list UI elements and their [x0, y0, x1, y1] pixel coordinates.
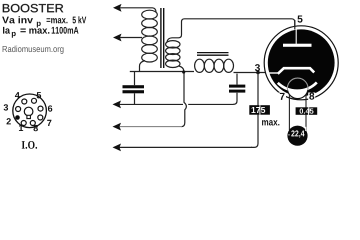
- label pin 3: [255, 64, 260, 71]
- value circle 22,4: [287, 126, 307, 146]
- socket label 1: [19, 125, 23, 131]
- socket key: [24, 107, 33, 118]
- wire secondary bottom lead: [179, 66, 184, 72]
- socket label 6: [48, 105, 52, 111]
- inductor L1: [195, 59, 234, 72]
- label pin 8 with halo: [308, 92, 315, 101]
- label pin 5: [297, 15, 302, 22]
- socket pin 8: [30, 121, 35, 126]
- rating line Va inv p = max. 5 kV: [2, 16, 86, 27]
- arrow output C with line: [113, 144, 253, 152]
- socket label 7: [47, 120, 51, 126]
- socket label 3: [4, 104, 8, 110]
- wire primary bottom lead: [140, 61, 146, 72]
- node junction secondary bottom: [182, 70, 185, 73]
- tube grid: [269, 68, 315, 74]
- value box 0.45: [296, 107, 318, 115]
- capacitor C1 bottom lead: [134, 93, 136, 104]
- transformer T1 core: [161, 8, 164, 68]
- capacitor C1: [123, 85, 145, 93]
- watermark Radiomuseum.org: [3, 46, 64, 54]
- tube V1 envelope: [264, 26, 338, 100]
- socket pin 6: [38, 106, 43, 111]
- socket label 5: [37, 92, 41, 98]
- socket pin 3: [16, 107, 21, 112]
- wire heater lead pin 8: [305, 94, 307, 131]
- socket outline: [13, 94, 47, 128]
- socket pin 4: [22, 99, 27, 104]
- capacitor C2 top lead: [236, 74, 238, 85]
- socket label I.O.: [22, 141, 37, 149]
- wire bottom bus: [130, 71, 194, 73]
- node junction on pin3 wire: [256, 71, 260, 75]
- label pin 7 with halo: [279, 93, 287, 102]
- wire hop where secondary return crosses line A: [182, 72, 189, 127]
- transformer T1 secondary winding: [166, 41, 180, 68]
- capacitor C2: [229, 85, 245, 93]
- socket label 4: [15, 92, 20, 98]
- tube V1 black body: [268, 29, 335, 96]
- socket label 8: [33, 125, 37, 131]
- wire inductor to tube pin 3: [234, 72, 270, 74]
- arrow top input 1: [113, 4, 153, 12]
- capacitor C1 top lead: [134, 72, 136, 86]
- socket pin 2 (filled): [15, 115, 20, 120]
- wire secondary top to tube pin 5: [167, 19, 295, 42]
- tube pin 5 lead: [295, 20, 296, 44]
- arrow top input 2 (primary tap): [113, 34, 142, 42]
- tube anode plate: [283, 44, 312, 47]
- socket pin 5: [32, 98, 37, 103]
- tube cathode arc: [278, 82, 317, 90]
- capacitor C2 bottom lead: [233, 93, 237, 105]
- wire heater lead pin 7: [288, 94, 290, 130]
- inductor L1 core: [197, 53, 229, 56]
- wire top lead into primary: [153, 8, 157, 12]
- socket label 2: [7, 118, 11, 124]
- wire node down through 175 box to arrow C: [251, 73, 258, 148]
- arrow output B with line: [113, 123, 183, 131]
- transformer T1 primary winding: [142, 10, 158, 62]
- label max.: [262, 120, 279, 125]
- arrow output A with line: [113, 101, 234, 109]
- socket pin 1: [21, 121, 26, 126]
- title BOOSTER: [3, 4, 63, 12]
- value box 175: [249, 105, 270, 115]
- rating line Ia p = max. 1100mA: [3, 27, 79, 38]
- socket pin 7: [38, 115, 43, 120]
- tube heater circle: [287, 78, 308, 99]
